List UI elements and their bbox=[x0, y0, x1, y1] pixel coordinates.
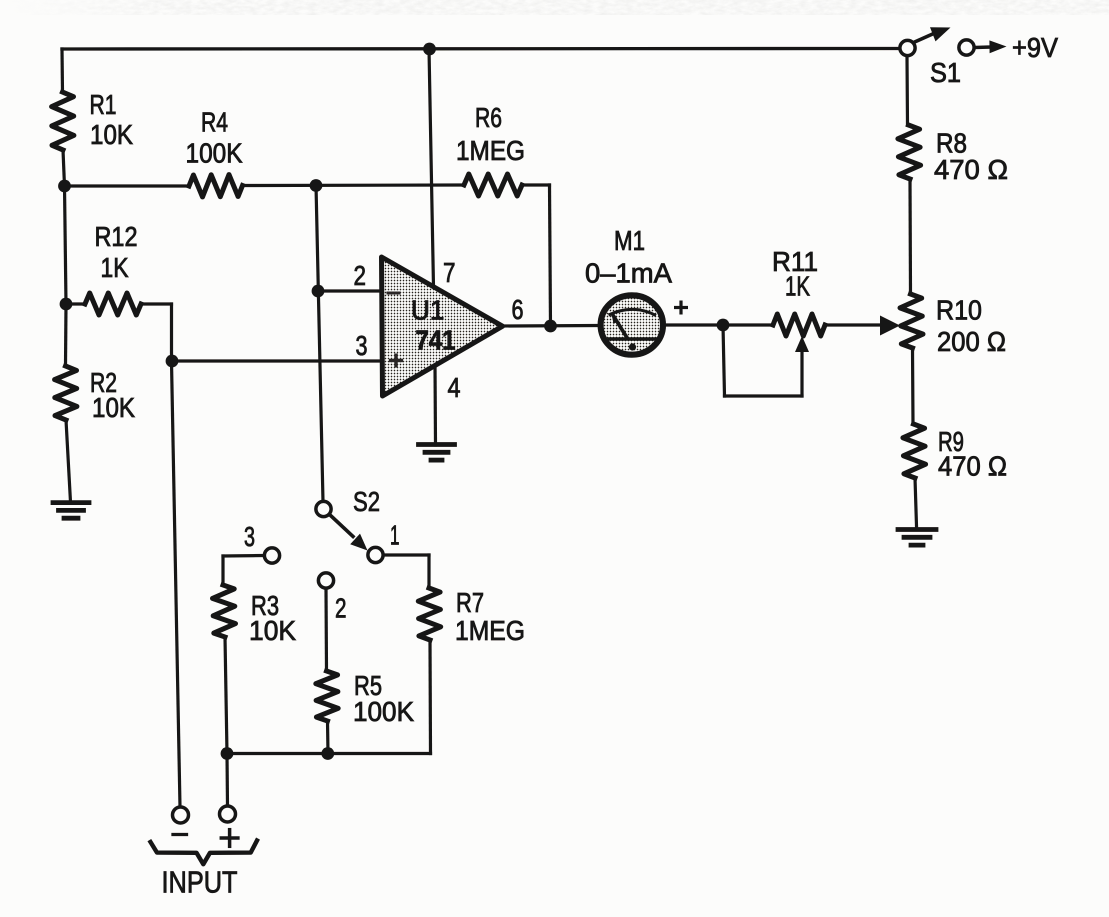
svg-text:R6: R6 bbox=[475, 102, 502, 133]
svg-text:2: 2 bbox=[335, 593, 347, 624]
svg-text:10K: 10K bbox=[90, 119, 133, 150]
svg-text:100K: 100K bbox=[353, 696, 414, 727]
svg-text:+9V: +9V bbox=[1012, 32, 1058, 63]
svg-text:6: 6 bbox=[512, 294, 524, 325]
svg-text:INPUT: INPUT bbox=[162, 865, 238, 900]
svg-text:1MEG: 1MEG bbox=[456, 135, 525, 166]
svg-text:10K: 10K bbox=[249, 615, 296, 646]
svg-text:1K: 1K bbox=[101, 252, 129, 283]
svg-text:R1: R1 bbox=[90, 89, 117, 120]
svg-text:R4: R4 bbox=[201, 107, 228, 138]
svg-text:0–1mA: 0–1mA bbox=[585, 258, 672, 289]
svg-text:1: 1 bbox=[390, 520, 400, 551]
svg-text:R12: R12 bbox=[95, 221, 138, 252]
svg-text:470 Ω: 470 Ω bbox=[938, 451, 1007, 482]
svg-text:7: 7 bbox=[443, 257, 456, 288]
svg-text:S2: S2 bbox=[353, 486, 380, 517]
svg-text:3: 3 bbox=[244, 521, 255, 552]
svg-text:3: 3 bbox=[356, 330, 368, 361]
svg-text:741: 741 bbox=[416, 325, 456, 356]
svg-text:S1: S1 bbox=[930, 57, 961, 88]
svg-text:R7: R7 bbox=[456, 587, 484, 618]
svg-text:1K: 1K bbox=[785, 271, 810, 302]
svg-text:1MEG: 1MEG bbox=[455, 615, 525, 646]
svg-text:200 Ω: 200 Ω bbox=[937, 326, 1006, 357]
svg-text:2: 2 bbox=[354, 260, 367, 291]
svg-text:M1: M1 bbox=[614, 225, 645, 256]
svg-text:10K: 10K bbox=[92, 392, 135, 423]
svg-text:R10: R10 bbox=[936, 295, 982, 326]
svg-text:4: 4 bbox=[448, 372, 461, 403]
svg-text:100K: 100K bbox=[186, 138, 243, 169]
svg-text:U1: U1 bbox=[411, 295, 445, 326]
svg-text:470 Ω: 470 Ω bbox=[934, 154, 1008, 185]
